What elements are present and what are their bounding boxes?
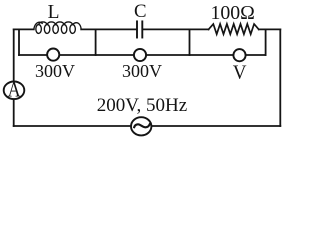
AC source circle (131, 117, 151, 135)
svg-text:A: A (8, 79, 21, 102)
wire top-left segment (14, 28, 34, 30)
svg-text:300V: 300V (122, 61, 162, 81)
rung 2 vertical wire (L/C junction) (95, 29, 97, 55)
svg-text:300V: 300V (35, 61, 75, 81)
voltmeter V1 circle (47, 49, 59, 61)
rung 3 vertical wire (C/R junction) (189, 29, 191, 55)
wire capacitor to resistor (143, 28, 208, 30)
wire right vertical (279, 29, 281, 126)
svg-text:C: C (134, 1, 147, 22)
wire left vertical (13, 29, 15, 126)
voltmeter V2 circle (134, 49, 146, 61)
wire bottom (14, 125, 281, 127)
svg-text:L: L (48, 1, 60, 23)
capacitor plate left (136, 21, 138, 37)
voltmeter V3 circle (233, 49, 245, 61)
wire L to capacitor (81, 28, 136, 30)
svg-text:V: V (233, 61, 247, 84)
svg-text:100Ω: 100Ω (211, 2, 255, 24)
wire top-right segment (259, 28, 281, 30)
inductor L coil (34, 22, 81, 34)
capacitor plate right (141, 21, 143, 37)
voltmeter row wire (19, 54, 266, 56)
AC source sine wave (134, 124, 150, 127)
rung 4 vertical wire (265, 29, 267, 55)
svg-text:200V, 50Hz: 200V, 50Hz (97, 95, 187, 116)
resistor 100ohm zigzag (209, 24, 259, 34)
rung 1 vertical wire (18, 29, 20, 55)
ammeter circle (4, 82, 25, 100)
